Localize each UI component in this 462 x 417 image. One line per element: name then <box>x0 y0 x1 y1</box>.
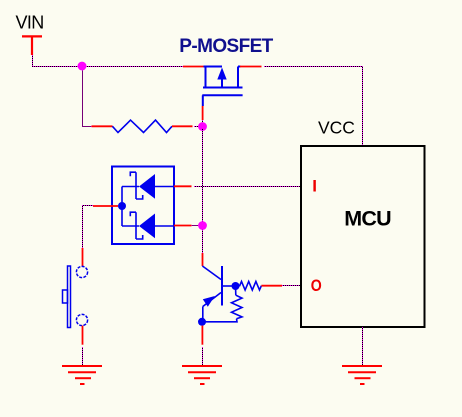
wire MCU ground dashed <box>362 327 364 366</box>
wire main vertical gate net (dashed) <box>202 128 204 253</box>
wire dashed O to MCU <box>282 285 301 287</box>
wire bottom diode red stub <box>174 225 192 227</box>
svg-text:P-MOSFET: P-MOSFET <box>179 36 273 57</box>
transistor Q2 NPN/PNP <box>221 266 223 306</box>
svg-text:VIN: VIN <box>16 13 44 33</box>
wire MOSFET drain red stub <box>240 66 262 68</box>
diode D1a (top zener) <box>122 172 174 199</box>
switch SW1 push button <box>63 266 88 328</box>
wire dashed to gate node <box>194 126 200 128</box>
svg-text:MCU: MCU <box>344 206 391 230</box>
wire red pin stub to MOSFET source <box>183 66 204 68</box>
wire red pin stub resistor left <box>92 125 113 127</box>
ground G1 (button) <box>62 366 102 384</box>
wire common cathode vertical <box>121 187 123 227</box>
arrow of Q1 P-MOSFET <box>217 68 226 80</box>
diode D1b (bottom zener) <box>122 212 174 239</box>
node A junction dot <box>78 62 87 71</box>
wire node A to MOSFET source (dashed then red stub) <box>82 66 183 68</box>
transistor Q1 P-MOSFET <box>202 67 242 107</box>
arrow of Q2 emitter <box>203 296 215 307</box>
MCU box U1 <box>301 146 425 327</box>
wire red pin stub resistor right <box>172 125 193 127</box>
wire drain to MCU VCC (dashed) <box>264 67 363 147</box>
wire red into diode box <box>93 205 118 207</box>
wire red stub O line <box>261 285 282 287</box>
svg-text:O: O <box>311 276 322 295</box>
wire VIN drop (dashed) <box>33 55 83 67</box>
wire node A down to resistor (dashed) <box>83 67 92 127</box>
wire red down to button <box>82 248 84 266</box>
wire emitter red to ground <box>201 326 203 345</box>
wire button bottom red <box>82 326 84 345</box>
power symbol VIN <box>22 36 42 55</box>
wire emitter dashed to ground <box>202 347 204 366</box>
svg-text:VCC: VCC <box>318 118 355 138</box>
ground G2 (transistor) <box>182 366 222 384</box>
node gate junction dot <box>198 122 207 131</box>
resistor R1 <box>112 120 172 132</box>
wire dashed to main vertical <box>192 225 200 227</box>
wire gate dashed bit <box>202 120 204 124</box>
node base junction dot <box>232 282 240 290</box>
svg-text:I: I <box>312 176 317 195</box>
wire top diode red stub <box>174 185 192 187</box>
wire button dashed to ground <box>82 347 84 366</box>
node zener/gate junction dot <box>198 221 207 230</box>
wire red to collector <box>202 253 204 266</box>
wire I line dashed to MCU <box>194 186 301 188</box>
wire button net: dashed from corner to diode box <box>83 206 94 249</box>
resistor R2 (base) <box>236 281 262 290</box>
node common cathode dot <box>118 202 126 210</box>
ground G3 (MCU) <box>342 366 382 384</box>
resistor R3 (base-emitter) <box>202 286 242 322</box>
diode pack box D1 <box>112 167 174 245</box>
wire gate red stub <box>202 106 204 120</box>
node emitter junction dot <box>198 318 206 326</box>
